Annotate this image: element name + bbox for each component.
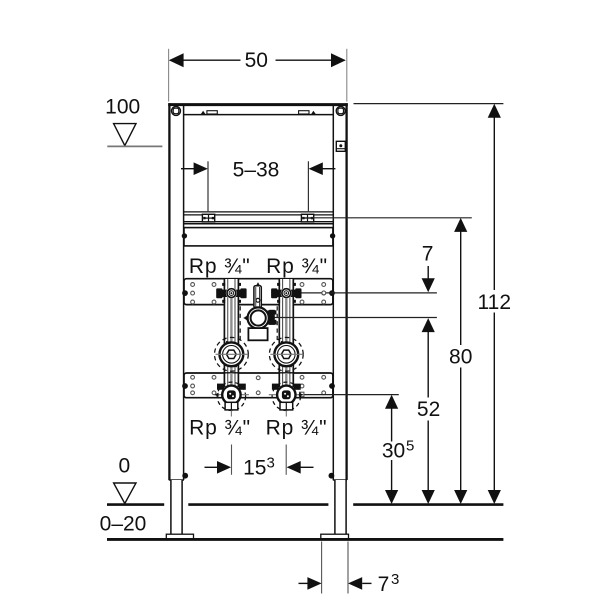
right leg foot bbox=[321, 480, 349, 539]
svg-text:Rp ¾": Rp ¾" bbox=[189, 255, 251, 278]
level mark 0 bbox=[114, 454, 136, 503]
dimension 30^5 bbox=[382, 395, 415, 504]
dimension 112 bbox=[354, 104, 512, 504]
top bar hooks bbox=[201, 111, 316, 114]
left leg lock tab bbox=[182, 473, 188, 479]
svg-text:Rp ¾": Rp ¾" bbox=[266, 255, 328, 278]
svg-text:3: 3 bbox=[391, 571, 399, 588]
svg-text:112: 112 bbox=[478, 291, 511, 314]
dimension 7^3 bbox=[299, 542, 400, 596]
right leg lock tab bbox=[329, 473, 335, 479]
screw top-left bbox=[172, 106, 181, 115]
svg-text:Rp ¾": Rp ¾" bbox=[189, 417, 251, 440]
upper water fitting right bbox=[271, 283, 301, 303]
right rail bracket square bbox=[336, 141, 345, 151]
svg-text:7: 7 bbox=[378, 573, 390, 596]
svg-text:5: 5 bbox=[406, 438, 414, 455]
drain inlet pipe bbox=[254, 283, 261, 307]
drain outlet box bbox=[248, 328, 267, 340]
supply pipe bracket right bbox=[279, 279, 293, 389]
svg-text:Rp ¾": Rp ¾" bbox=[266, 417, 328, 440]
screw top-right bbox=[336, 106, 345, 115]
hex union right bbox=[269, 337, 303, 371]
dimension 15^3 bbox=[205, 445, 314, 480]
upper plate holes bbox=[191, 283, 326, 304]
raw floor line bbox=[107, 538, 503, 541]
svg-text:0–20: 0–20 bbox=[100, 513, 147, 536]
lower plate holes bbox=[191, 375, 326, 394]
lower water fitting right bbox=[269, 382, 304, 416]
level mark 100 bbox=[105, 96, 162, 147]
finished floor line bbox=[107, 503, 503, 506]
crossbar slider fastener left bbox=[202, 214, 214, 222]
svg-text:15: 15 bbox=[243, 457, 266, 480]
svg-text:7: 7 bbox=[422, 243, 434, 266]
reference line 80cm level bbox=[302, 217, 472, 219]
left leg foot bbox=[166, 480, 193, 539]
hex union left bbox=[215, 337, 249, 371]
reference line lower fittings level bbox=[298, 394, 399, 396]
frame top bar bbox=[168, 105, 348, 115]
dashed drain clearance lines bbox=[239, 306, 241, 340]
upper water fitting left bbox=[216, 283, 246, 303]
drain crosshair bbox=[244, 317, 276, 319]
upper mounting plate bbox=[184, 279, 333, 305]
dimension 52 bbox=[417, 318, 440, 504]
crossbar slider fastener right bbox=[301, 214, 313, 222]
svg-text:0: 0 bbox=[118, 454, 130, 477]
svg-text:5–38: 5–38 bbox=[233, 158, 280, 181]
dimension 5-38 bbox=[181, 158, 335, 212]
svg-text:3: 3 bbox=[267, 455, 275, 472]
dimension 80 bbox=[449, 218, 472, 504]
dimension 50 bbox=[169, 49, 347, 102]
supply pipe bracket left bbox=[224, 279, 238, 389]
frame right rail bbox=[333, 103, 346, 480]
svg-text:52: 52 bbox=[417, 398, 440, 421]
bracket segment through lower plate right bbox=[279, 373, 293, 388]
reference line drain level bbox=[272, 317, 437, 319]
reference line upper fittings level bbox=[301, 292, 437, 294]
drain pipe clamp bbox=[244, 307, 277, 328]
svg-text:30: 30 bbox=[382, 440, 405, 463]
lower mounting plate bbox=[184, 373, 333, 398]
svg-text:50: 50 bbox=[245, 49, 268, 72]
frame left rail bbox=[169, 103, 183, 480]
dimension 7 bbox=[422, 243, 435, 293]
lower water fitting left bbox=[214, 382, 249, 416]
upper plate edge clips bbox=[182, 290, 188, 296]
bracket segment through lower plate left bbox=[224, 373, 238, 388]
svg-text:100: 100 bbox=[105, 96, 140, 119]
crossbar 5-38 bbox=[184, 212, 333, 224]
second crossbar bbox=[182, 228, 336, 246]
svg-text:80: 80 bbox=[449, 346, 472, 369]
